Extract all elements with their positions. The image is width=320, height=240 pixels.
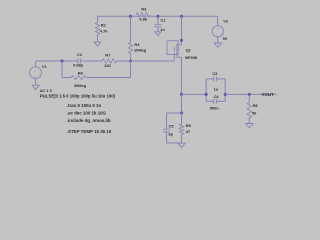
svg-text:.include dg_nmos.lib: .include dg_nmos.lib <box>67 118 111 123</box>
svg-text:30Meg: 30Meg <box>74 83 87 88</box>
svg-text:.ac dec 100 1k 10G: .ac dec 100 1k 10G <box>67 111 107 116</box>
svg-text:V1: V1 <box>42 64 48 69</box>
svg-text:3p: 3p <box>168 132 173 137</box>
svg-text:C3: C3 <box>212 71 218 76</box>
svg-text:PULSE(0 1.5 0 100p 100p 5u 10u: PULSE(0 1.5 0 100p 100p 5u 10u 100) <box>40 94 116 99</box>
svg-text:+: + <box>216 27 218 31</box>
svg-text:+: + <box>34 69 36 73</box>
svg-text:R2: R2 <box>101 23 107 28</box>
svg-text:.tran 0 100u 0 1n: .tran 0 100u 0 1n <box>67 103 102 108</box>
svg-text:0.68p: 0.68p <box>73 63 84 68</box>
svg-text:R6: R6 <box>78 71 84 76</box>
svg-text:6.8k: 6.8k <box>139 17 147 22</box>
svg-text:R3: R3 <box>141 7 147 12</box>
svg-text:C5: C5 <box>169 124 175 129</box>
svg-text:.STEP TEMP 15 35 10: .STEP TEMP 15 35 10 <box>67 129 112 134</box>
svg-text:1n: 1n <box>160 27 165 32</box>
svg-text:1u: 1u <box>214 86 219 91</box>
svg-text:BF998: BF998 <box>185 55 198 60</box>
svg-text:5V: 5V <box>223 36 228 41</box>
svg-text:C4: C4 <box>214 94 220 99</box>
svg-text:VOUT: VOUT <box>261 92 274 97</box>
svg-text:500n: 500n <box>210 105 220 110</box>
svg-text:C2: C2 <box>77 52 83 57</box>
svg-text:R8: R8 <box>253 103 259 108</box>
svg-text:10Meg: 10Meg <box>134 47 147 52</box>
svg-text:R5: R5 <box>186 123 192 128</box>
svg-text:AC 1 0: AC 1 0 <box>40 88 53 93</box>
svg-text:V2: V2 <box>223 18 229 23</box>
svg-text:220: 220 <box>104 63 111 68</box>
svg-text:4.7k: 4.7k <box>100 28 108 33</box>
svg-text:R7: R7 <box>105 53 111 58</box>
svg-text:Q1: Q1 <box>186 48 192 53</box>
svg-text:C1: C1 <box>160 18 166 23</box>
svg-text:−: − <box>34 74 36 78</box>
svg-text:−: − <box>216 33 218 37</box>
